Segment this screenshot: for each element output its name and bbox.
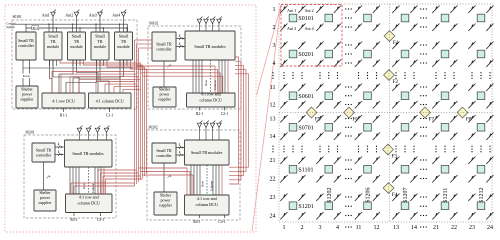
svg-text:3: 3	[319, 225, 322, 231]
svg-text:12: 12	[374, 225, 380, 231]
svg-text:11: 11	[356, 225, 362, 231]
svg-text:S1201: S1201	[298, 204, 313, 210]
svg-text:Ant 3: Ant 3	[287, 26, 296, 31]
svg-text:Ant 2: Ant 2	[305, 8, 314, 13]
svg-text:4: 4	[273, 61, 276, 67]
svg-text:supplier: supplier	[159, 202, 173, 207]
svg-text:4:1 row DCU: 4:1 row DCU	[52, 99, 75, 104]
svg-text:column DCU: column DCU	[77, 200, 99, 205]
svg-text:Ant 4: Ant 4	[305, 26, 314, 31]
svg-text:S1202: S1202	[327, 187, 333, 202]
svg-text:24: 24	[487, 225, 493, 231]
svg-text:controller: controller	[156, 153, 172, 158]
svg-text:module: module	[94, 44, 106, 49]
svg-text:4: 4	[179, 42, 181, 46]
svg-text:11: 11	[270, 85, 276, 91]
svg-text:controller: controller	[36, 152, 52, 157]
svg-text:4: 4	[179, 151, 181, 155]
svg-text:Row: Row	[204, 79, 208, 86]
svg-text:S0101: S0101	[298, 16, 313, 22]
svg-text:4:1 row and: 4:1 row and	[197, 196, 218, 201]
svg-text:module: module	[47, 44, 59, 49]
svg-text:S0101: S0101	[13, 15, 22, 19]
svg-text:1: 1	[273, 7, 276, 13]
svg-text:14: 14	[411, 225, 417, 231]
svg-text:14: 14	[270, 134, 276, 140]
svg-text:S1211: S1211	[443, 188, 449, 203]
svg-text:C4-1: C4-1	[218, 220, 226, 224]
svg-text:S0701: S0701	[298, 125, 313, 131]
svg-text:Ant 1: Ant 1	[287, 8, 296, 13]
svg-text:12: 12	[270, 103, 276, 109]
svg-text:4: 4	[179, 143, 181, 147]
svg-text:2: 2	[301, 225, 304, 231]
svg-text:supplier: supplier	[39, 200, 53, 205]
svg-text:24: 24	[270, 214, 276, 220]
svg-text:1: 1	[283, 225, 286, 231]
svg-text:4: 4	[58, 143, 60, 147]
svg-text:4: 4	[179, 34, 181, 38]
svg-text:Ant4: Ant4	[112, 12, 120, 17]
svg-text:4: 4	[58, 150, 60, 154]
svg-text:R3-1: R3-1	[70, 218, 78, 222]
svg-text:F6: F6	[352, 116, 358, 122]
svg-text:F2: F2	[392, 79, 398, 85]
svg-text:S1212: S1212	[479, 187, 485, 202]
svg-text:controller: controller	[18, 43, 35, 48]
svg-text:Small TR modules: Small TR modules	[191, 150, 223, 155]
svg-text:23: 23	[469, 225, 475, 231]
svg-text:Power: Power	[23, 75, 30, 78]
svg-text:column DCU: column DCU	[199, 97, 221, 102]
svg-text:13: 13	[393, 225, 399, 231]
svg-text:4:1 row and: 4:1 row and	[79, 195, 100, 200]
svg-text:module: module	[70, 44, 82, 49]
svg-text:4: 4	[336, 225, 339, 231]
svg-text:S1207: S1207	[403, 187, 409, 202]
svg-text:F7: F7	[428, 116, 434, 122]
svg-text:4:1 column DCU: 4:1 column DCU	[96, 99, 124, 104]
svg-text:S0202: S0202	[149, 125, 158, 129]
svg-text:supplier: supplier	[158, 96, 172, 101]
svg-text:R1-1: R1-1	[60, 114, 68, 118]
svg-text:4:1 row and: 4:1 row and	[201, 92, 222, 97]
svg-text:Row: Row	[200, 180, 204, 187]
svg-text:22: 22	[451, 225, 457, 231]
svg-text:C1-1: C1-1	[106, 114, 114, 118]
svg-text:F4: F4	[392, 192, 398, 198]
svg-text:Small TR modules: Small TR modules	[194, 44, 226, 49]
svg-text:S0601: S0601	[298, 94, 313, 100]
svg-text:supplier: supplier	[20, 96, 34, 101]
svg-text:3: 3	[273, 43, 276, 49]
svg-text:F8: F8	[466, 116, 472, 122]
svg-text:F3: F3	[391, 153, 397, 159]
svg-text:Ant3: Ant3	[89, 12, 97, 17]
svg-text:23: 23	[270, 195, 276, 201]
svg-text:S0102: S0102	[149, 21, 158, 25]
svg-text:Small TR modules: Small TR modules	[72, 151, 104, 156]
svg-text:C2-1: C2-1	[221, 112, 229, 116]
svg-text:Column: Column	[91, 182, 95, 193]
svg-text:Ant1: Ant1	[42, 12, 50, 17]
svg-text:signals: signals	[6, 25, 15, 29]
svg-text:controller: controller	[156, 46, 172, 51]
svg-text:21: 21	[270, 158, 276, 164]
svg-text:C3-1: C3-1	[97, 218, 105, 222]
svg-text:RCT: RCT	[33, 27, 39, 30]
svg-text:R2-1: R2-1	[196, 112, 204, 116]
svg-text:21: 21	[433, 225, 439, 231]
svg-text:F5: F5	[315, 116, 321, 122]
svg-text:S1206: S1206	[366, 187, 372, 202]
svg-text:13: 13	[270, 117, 276, 123]
svg-text:22: 22	[270, 177, 276, 183]
svg-text:S0201: S0201	[26, 130, 35, 134]
svg-text:S1101: S1101	[298, 167, 313, 173]
svg-text:column DCU: column DCU	[195, 202, 217, 207]
svg-text:R4-1: R4-1	[193, 220, 201, 224]
svg-text:module: module	[117, 44, 129, 49]
svg-text:2: 2	[273, 25, 276, 31]
svg-text:S0201: S0201	[298, 52, 313, 58]
svg-text:F1: F1	[393, 40, 399, 46]
svg-text:Ant2: Ant2	[65, 12, 73, 17]
